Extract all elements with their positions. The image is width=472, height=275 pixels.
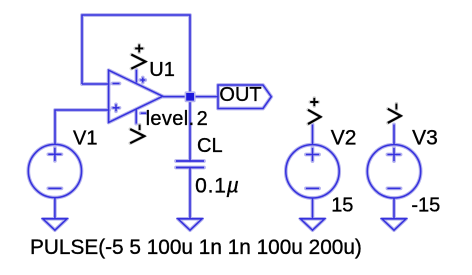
svg-text:U1: U1 [149, 59, 175, 81]
svg-text:level.: level. [146, 108, 195, 130]
svg-text:OUT: OUT [219, 84, 261, 106]
svg-text:0.1µ: 0.1µ [195, 174, 240, 197]
svg-text:PULSE(-5 5 100u 1n 1n 100u 200: PULSE(-5 5 100u 1n 1n 100u 200u) [30, 236, 362, 259]
svg-text:-15: -15 [411, 195, 440, 217]
svg-text:CL: CL [197, 135, 223, 157]
svg-text:V2: V2 [331, 127, 357, 150]
svg-text:2: 2 [197, 108, 208, 130]
svg-text:15: 15 [331, 195, 353, 217]
svg-text:V1: V1 [73, 127, 97, 149]
svg-text:V3: V3 [412, 127, 438, 150]
